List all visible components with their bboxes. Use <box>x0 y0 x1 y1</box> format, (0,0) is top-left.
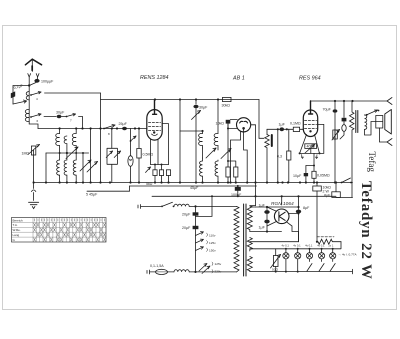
output transformer core <box>356 111 358 133</box>
tube RES964 grid dashes <box>305 121 317 129</box>
variable cap arrow tuning 3 <box>87 162 98 173</box>
wire: top anode bus left <box>101 99 260 101</box>
tube RENS1284 anode <box>153 100 157 115</box>
svg-text:30kΩ: 30kΩ <box>222 104 231 108</box>
svg-text:30μF: 30μF <box>56 111 65 115</box>
power transformer core <box>244 204 246 276</box>
svg-text:Tefadyn 22 W: Tefadyn 22 W <box>358 181 374 280</box>
resistor 0,1MOhm grid <box>293 127 299 131</box>
node <box>59 127 61 129</box>
capacitor 30uF on x196 <box>195 100 197 105</box>
wire: selector mid branch <box>196 196 213 216</box>
wire: switch6 line right <box>44 116 56 118</box>
brace marks lower <box>212 262 213 273</box>
wire: lamp bus <box>250 242 341 249</box>
svg-text:70μF: 70μF <box>323 108 332 112</box>
svg-text:20μF: 20μF <box>182 226 191 230</box>
trimmer arrow left <box>106 151 112 158</box>
wire: bias line F2 <box>130 185 257 187</box>
dashes above resistor <box>317 236 334 238</box>
wire: 1uF column <box>266 207 268 232</box>
tube RES964 cathode <box>300 135 320 154</box>
svg-text:220v: 220v <box>215 270 222 274</box>
output transformer secondary winding <box>365 115 367 129</box>
wire: switch4 to x100.5 <box>45 92 101 94</box>
switch marks under lamps <box>307 264 312 272</box>
secondary HT winding <box>247 206 252 232</box>
coil L6 mid lower <box>64 153 67 183</box>
capacitor 8uF block <box>335 183 337 192</box>
wire: RES964 grid line <box>267 128 304 130</box>
switch: speaker selector <box>365 114 367 116</box>
secondary filament winding 2 <box>247 257 252 272</box>
svg-text:0,1MΩ: 0,1MΩ <box>290 122 301 126</box>
svg-text:150v: 150v <box>209 249 216 253</box>
resistor 10kOhm 2W <box>316 183 318 187</box>
coil L5 mid upper <box>64 136 67 153</box>
capacitor 0,1uF left branch (hatched) <box>11 91 15 98</box>
IF coil lower <box>200 158 203 183</box>
node <box>99 127 101 129</box>
svg-text:RENS 1284: RENS 1284 <box>140 75 168 81</box>
wire: left branch down <box>13 86 29 105</box>
node dots on top bus <box>154 98 354 102</box>
svg-text:W.Re.: W.Re. <box>13 228 21 232</box>
capacitor 30uF series <box>57 115 62 118</box>
resistor zigzag horizontal <box>318 239 341 244</box>
capacitor 1uF upper <box>264 210 269 214</box>
tube RES964 envelope <box>303 110 317 137</box>
coil L8 lower <box>73 153 76 183</box>
svg-text:4v 0,1: 4v 0,1 <box>282 243 290 247</box>
wire: selector vertical <box>195 206 197 272</box>
indicator oval on x344 <box>342 125 346 132</box>
capacitor 100pF antenna series <box>34 79 39 83</box>
wire: filament tap to lamps <box>250 248 252 250</box>
svg-text:10kΩ: 10kΩ <box>216 122 225 126</box>
wire: AB1 coupling corner <box>259 129 267 138</box>
coil: line choke upper <box>174 204 189 206</box>
wire: top anode bus right <box>311 100 388 102</box>
node <box>116 127 118 129</box>
wire: centre vertical <box>311 148 314 171</box>
svg-text:40kΩ: 40kΩ <box>307 145 316 149</box>
tube RENS1284 envelope <box>147 110 162 141</box>
variable cap arrow IF 1 <box>206 148 216 158</box>
capacitor 10uF cathode <box>304 173 308 176</box>
node: antenna junction <box>28 84 30 86</box>
capacitor 20uF upper <box>193 212 199 215</box>
brace marks selector <box>207 233 208 252</box>
node <box>194 205 196 207</box>
variable cap arrow IF 2 <box>221 149 231 159</box>
resistor box K2 <box>159 170 163 176</box>
wire: x83 vertical <box>82 153 84 183</box>
wire: antenna down lead <box>29 77 37 124</box>
wire: winding bottom to speaker <box>365 122 383 136</box>
resistor box K1 <box>153 170 157 176</box>
terminal: mains lower <box>147 270 150 274</box>
switch 6: lower range switch <box>30 116 32 118</box>
capacitor 20uF lower <box>193 226 199 229</box>
wire: x298.5 vertical <box>298 196 300 241</box>
coil L1 antenna upper <box>26 92 29 100</box>
wire: bias line F3 <box>87 186 130 191</box>
wire: to x82.5 down to grid line <box>79 117 83 129</box>
resistor box K3 <box>166 170 170 176</box>
RGN connections <box>267 207 299 242</box>
tube RGN1064 anode lead <box>281 196 283 205</box>
wire: x230 AB1 pin down <box>231 131 241 183</box>
wire: mains lower line <box>150 271 155 273</box>
svg-text:1μF: 1μF <box>259 226 266 230</box>
wire: x247 AB1 pin down <box>244 132 248 183</box>
IF coil 2 upper <box>214 100 218 151</box>
wire: coil bottom to grid line corner <box>29 124 38 129</box>
antenna <box>25 59 41 65</box>
capacitor 100uF bus bypass <box>235 187 241 191</box>
node dots on bottom bus <box>33 181 338 183</box>
svg-text:125v: 125v <box>209 241 216 245</box>
wire: HT line y207 <box>250 206 256 208</box>
IF coil 2 lower <box>215 160 218 183</box>
dial lamp 4 <box>321 249 323 253</box>
switch: wave change lower left <box>13 101 27 104</box>
resistor zigzag x352.5 <box>350 101 355 198</box>
capacitor small block x344 <box>343 101 345 118</box>
resistor box grid leak <box>226 167 230 177</box>
svg-text:4v 0,1: 4v 0,1 <box>317 243 325 247</box>
fuse 0,1-1,5A <box>156 269 168 274</box>
wire: HT line below bus <box>152 195 336 197</box>
svg-text:8μF: 8μF <box>303 206 310 210</box>
svg-text:4v 0,1: 4v 0,1 <box>305 243 313 247</box>
IF coil upper <box>199 131 203 148</box>
wire: x180 lower <box>179 131 181 183</box>
resistor 30kOhm on bus <box>223 97 232 101</box>
wire: vertical x259 from top bus <box>258 100 260 139</box>
wire: mains upper line <box>141 205 161 207</box>
resistor zigzag after AB1 <box>265 135 269 183</box>
svg-text:AB 1: AB 1 <box>232 76 245 82</box>
svg-text:125v: 125v <box>215 262 222 266</box>
wire: bottom chassis bus <box>34 182 353 184</box>
capacitor 25pF grid <box>122 127 127 130</box>
svg-text:T.A.: T.A. <box>13 223 18 227</box>
dial lamp 2 <box>297 249 299 253</box>
svg-text:100μF: 100μF <box>231 193 242 197</box>
tap arrows voltage selector <box>196 232 204 236</box>
coil L3 upper <box>56 129 60 154</box>
coil: line choke lower <box>174 270 189 272</box>
terminal: mains upper <box>138 205 141 209</box>
wire: lamp bottom bus <box>250 269 353 274</box>
ground: chassis ground symbol <box>33 183 35 189</box>
svg-text:0,1-1,5A: 0,1-1,5A <box>150 264 164 268</box>
svg-text:1μF: 1μF <box>279 123 286 127</box>
node <box>90 127 92 129</box>
wire: grid line tube1 <box>38 128 147 130</box>
node <box>201 130 203 132</box>
rheostat 50 Ohm <box>275 249 277 256</box>
coil L2 antenna lower <box>25 109 29 121</box>
svg-text:RES 964: RES 964 <box>299 76 321 82</box>
coil L7 upper <box>72 129 76 154</box>
tube RENS1284 cathode <box>151 134 159 165</box>
coil L4 lower <box>57 153 60 183</box>
speaker driver rect <box>376 116 383 129</box>
resistor box det load <box>234 167 238 177</box>
svg-text:45μF: 45μF <box>190 186 199 190</box>
variable cap arrow tuning 2 <box>80 160 91 171</box>
switch: mains power <box>161 206 163 208</box>
dial lamp 1 <box>285 249 287 253</box>
wire: mid line band filter <box>46 152 89 154</box>
switch on x130.5 <box>130 129 132 156</box>
knife switch on bottom bus right <box>341 182 343 184</box>
node <box>194 271 196 273</box>
svg-text:RGN 1064: RGN 1064 <box>271 201 294 207</box>
svg-text:30μF: 30μF <box>199 106 208 110</box>
speaker cone <box>385 110 392 135</box>
fuse lamp oval <box>128 156 133 167</box>
wire: y207 HT line right <box>256 206 299 208</box>
resistor 0,3MOhm vertical <box>287 151 291 160</box>
svg-text:Bereich: Bereich <box>13 218 24 222</box>
wire: grid line stub AB1 <box>228 127 238 129</box>
svg-text:5kΩ: 5kΩ <box>146 182 153 186</box>
tube RENS1284 grid dashes <box>149 123 161 131</box>
capacitor 1uF lower <box>264 220 269 224</box>
svg-text:20μF: 20μF <box>182 213 191 217</box>
svg-text:10μF: 10μF <box>293 174 302 178</box>
node mid <box>66 152 68 154</box>
trimmer pair bracket <box>111 129 113 149</box>
wire: cap branch <box>306 166 314 173</box>
cathode resistor 15kOhm <box>138 129 140 149</box>
svg-text:Lang: Lang <box>13 233 20 237</box>
choke hatched bar <box>271 135 273 146</box>
terminal: bus right end chevron <box>387 98 392 105</box>
svg-text:1v 1: 1v 1 <box>328 243 334 247</box>
capacitor 1uF grid <box>280 127 284 131</box>
svg-text:110v: 110v <box>209 234 216 238</box>
antenna clip terminals <box>28 74 39 77</box>
wire: cathode rail <box>300 152 320 154</box>
wire: mid tap line y231.5 <box>250 231 282 233</box>
tube AB1 envelope <box>237 118 251 132</box>
variable resistor tone <box>334 130 336 141</box>
switch 4: upper range switch <box>30 94 32 96</box>
wire: heater line y241.7 <box>316 241 318 243</box>
tube RGN1064 envelope <box>274 209 289 224</box>
variable cap arrow tuning 1 <box>66 147 78 159</box>
svg-text:4v 0,1: 4v 0,1 <box>293 243 301 247</box>
wire: x180 drop from bus <box>180 100 203 132</box>
variable resistor arrow on x196 <box>192 111 201 120</box>
svg-text:1μF: 1μF <box>259 204 266 208</box>
wire: lamp heater line left <box>250 241 299 243</box>
svg-text:0,5MΩ: 0,5MΩ <box>143 153 154 157</box>
switch 7 <box>66 116 68 118</box>
capacitor 8uF <box>296 210 301 214</box>
svg-text:8μF: 8μF <box>324 194 331 198</box>
tube AB1 diode plates <box>240 121 248 123</box>
svg-text:5 45μF: 5 45μF <box>86 192 98 196</box>
wire: link <box>202 148 204 158</box>
svg-text:Tefag: Tefag <box>367 152 377 173</box>
svg-text:25μF: 25μF <box>119 122 128 126</box>
svg-text:1MΩ: 1MΩ <box>22 152 30 156</box>
wire: x100.5 vertical <box>100 93 102 183</box>
wire: speaker return to terminal <box>380 128 388 142</box>
arrow at cathode left <box>146 167 151 173</box>
power transformer primary winding <box>234 206 239 272</box>
node x82.5 grid <box>81 127 83 129</box>
svg-text:50Ω: 50Ω <box>272 268 278 272</box>
tap arrows mains voltage <box>199 264 207 272</box>
potentiometer 40kOhm <box>305 144 317 149</box>
wire: x277 vertical <box>277 129 279 182</box>
wire: x46 vertical <box>45 153 47 183</box>
dial lamp 3 <box>309 249 311 253</box>
potentiometer 1MOhm <box>33 150 35 183</box>
svg-text:100μμF: 100μμF <box>41 80 54 84</box>
capacitor 10kOhm grid stub <box>226 120 231 124</box>
tube RGN1064 filament K <box>279 212 285 221</box>
svg-text:0,05MΩ: 0,05MΩ <box>317 174 330 178</box>
switch on grid line <box>103 128 105 130</box>
tube RES964 anode <box>309 101 313 114</box>
svg-text:0,3: 0,3 <box>277 155 282 159</box>
svg-text:→ 4v l. 0,77A: → 4v l. 0,77A <box>338 253 358 257</box>
node <box>75 127 77 129</box>
wire: x90.6 vertical <box>90 129 92 183</box>
secondary filament winding 1 <box>247 238 252 252</box>
resistor 0,05MOhm <box>312 171 316 178</box>
capacitor 70pF <box>334 101 336 109</box>
dial lamp 5 <box>332 249 334 253</box>
table: station/wave chart <box>12 218 107 243</box>
terminal: lower chevron <box>387 139 392 146</box>
wire: cathode link bar <box>151 164 169 166</box>
wire: HT top tap <box>250 205 256 207</box>
arrows on rail <box>301 155 318 159</box>
trimmer arrow right <box>114 151 120 158</box>
